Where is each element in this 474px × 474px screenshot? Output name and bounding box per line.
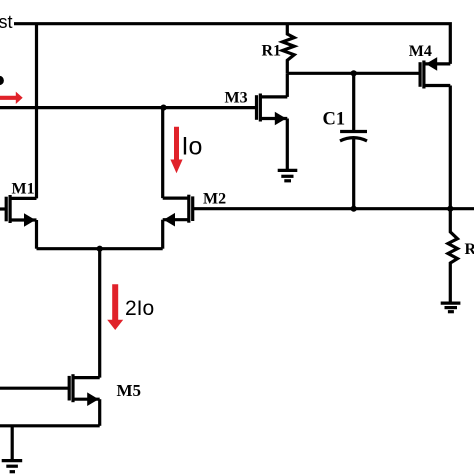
wire M1 source drop	[35, 220, 38, 249]
node dot R1/C1/M4-gate node	[351, 70, 357, 76]
svg-text:M4: M4	[409, 43, 432, 60]
resistor R (output load, label cropped)	[448, 209, 458, 302]
node dot output/R junction	[447, 206, 453, 212]
transistor M2 (NMOS, mirrored)	[163, 195, 193, 227]
svg-text:Io: Io	[182, 133, 203, 161]
wire M2 source drop	[161, 220, 164, 249]
svg-text:2Io: 2Io	[125, 297, 154, 320]
svg-text:M3: M3	[225, 90, 248, 107]
wire M4 drain drop to output node	[449, 86, 452, 209]
wire M3 drain stub (node line down to M3 drain)	[286, 73, 289, 97]
capacitor C1 top plate	[340, 130, 367, 133]
wire bottom line (left edge to M5 source)	[0, 424, 100, 427]
wire output line (M2 gate to right edge)	[193, 207, 474, 210]
wire C1 top lead	[352, 73, 355, 130]
transistor M1 (NMOS)	[0, 195, 37, 227]
node dot tail junction	[97, 246, 103, 252]
wire ground tap bottom-left	[11, 426, 14, 460]
ground under M3	[278, 170, 298, 180]
svg-text:M5: M5	[117, 381, 142, 400]
svg-text:R1: R1	[262, 42, 282, 59]
red current arrow into input (left edge)	[0, 92, 23, 104]
node dot C1 bottom on output line	[351, 206, 357, 212]
svg-text:R: R	[465, 241, 474, 258]
ground bottom-left	[2, 461, 23, 472]
capacitor C1 bottom curved plate	[340, 138, 367, 141]
wire M5 source drop	[98, 399, 101, 426]
node dot input junction (M2 feed)	[160, 105, 166, 111]
wire source join line (M1 source to M2 source)	[37, 247, 163, 250]
transistor M3 (NMOS)	[257, 94, 288, 126]
wire node line R1 bottom to M4 gate	[287, 72, 420, 75]
red current arrow Io	[170, 127, 182, 173]
wire input bias line (left edge to M3 gate)	[0, 106, 257, 109]
svg-text:st: st	[0, 12, 13, 32]
wire M3 source drop to ground	[286, 119, 289, 170]
red current arrow 2Io	[107, 284, 123, 330]
wire top rail (Vtest rail to M4 source corner)	[14, 24, 450, 64]
wire C1 bottom lead	[352, 139, 355, 209]
node dot cropped at left edge	[0, 76, 4, 85]
wire M2 drain feed vertical	[161, 108, 164, 199]
transistor M4 (PMOS)	[420, 57, 450, 88]
svg-text:M2: M2	[203, 191, 226, 208]
wire tail current drop (join node down to M5 drain)	[98, 249, 101, 378]
ground under resistor R	[441, 303, 461, 312]
wire left vertical (top rail down to M1 drain)	[35, 24, 38, 199]
resistor R1	[283, 24, 295, 74]
svg-text:C1: C1	[323, 110, 346, 130]
svg-text:M1: M1	[12, 180, 35, 197]
transistor M5 (NMOS)	[0, 374, 100, 406]
